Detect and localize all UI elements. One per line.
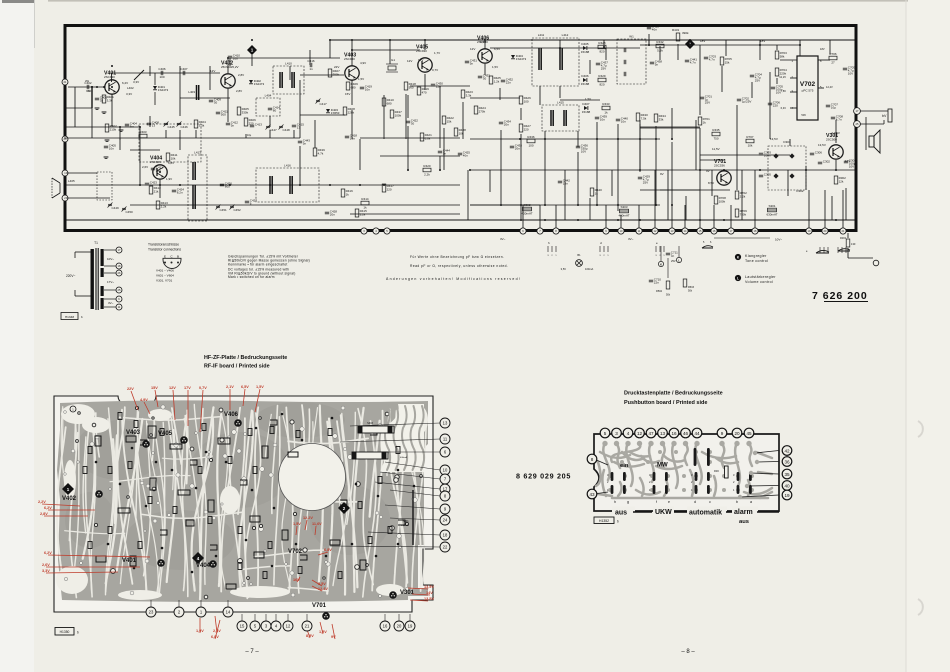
- svg-text:ein: ein: [620, 463, 629, 469]
- connector pin 14: [682, 228, 688, 234]
- capacitor C415: [292, 124, 296, 126]
- PCB index diamonds: [62, 483, 74, 495]
- coil winding: [279, 72, 281, 88]
- svg-text:4,7k: 4,7k: [318, 151, 324, 155]
- resistor R407: [328, 69, 332, 77]
- pushbutton top pin circles: [600, 428, 610, 438]
- svg-text:2SC536: 2SC536: [714, 164, 725, 168]
- connector pin 2: [62, 195, 68, 201]
- resistor R709: [735, 209, 739, 217]
- svg-text:1S2473: 1S2473: [254, 82, 265, 86]
- svg-text:Für Werte ohne Bezeichnung: Für Werte ohne Bezeichnung pF bzw Ω eins…: [410, 255, 504, 259]
- connector pin 3: [361, 228, 367, 234]
- transistor V404: [153, 165, 167, 179]
- svg-text:Kennmarke • für alarm ein: Kennmarke • für alarm eingeschaltet: [228, 262, 287, 266]
- diode D403: [326, 109, 330, 113]
- svg-text:3,3k: 3,3k: [199, 123, 205, 127]
- svg-text:390k: 390k: [682, 31, 689, 35]
- trimmer capacitor C451: [216, 205, 220, 207]
- svg-text:20n: 20n: [330, 213, 335, 217]
- resistor R426: [519, 96, 523, 104]
- svg-text:35: 35: [100, 99, 104, 103]
- pushbutton resistor R301: [725, 466, 729, 478]
- svg-text:15188: 15188: [582, 110, 591, 114]
- svg-text:R414: R414: [361, 197, 369, 201]
- svg-text:680: 680: [387, 101, 392, 105]
- pushbutton board outline: [594, 434, 779, 511]
- svg-text:10V: 10V: [581, 150, 586, 154]
- wire bottom bus: [66, 219, 855, 221]
- capacitor C424: [172, 189, 176, 191]
- svg-text:6,4V: 6,4V: [781, 106, 787, 110]
- svg-text:680: 680: [351, 85, 356, 89]
- diode D406: [583, 78, 587, 82]
- coil winding: [192, 162, 194, 180]
- svg-text:S301: S301: [403, 520, 409, 523]
- resistor R403: [139, 134, 147, 138]
- svg-text:2,8V: 2,8V: [236, 89, 242, 93]
- svg-text:Mark • switched on for al: Mark • switched on for alarm: [228, 275, 275, 279]
- svg-text:R429: R429: [598, 74, 606, 78]
- svg-text:L403: L403: [188, 90, 195, 94]
- capacitor C711: [666, 252, 670, 254]
- capacitor C431: [465, 60, 469, 62]
- horizontal wires: [300, 74, 344, 76]
- svg-text:R420: R420: [423, 164, 431, 168]
- svg-text:f: f: [656, 500, 657, 504]
- coil winding: [559, 48, 561, 70]
- connector pin 12: [652, 228, 658, 234]
- capacitor C412: [226, 122, 230, 124]
- capacitor C440: [616, 118, 620, 120]
- label H1348: [61, 313, 78, 320]
- svg-text:7,5k: 7,5k: [641, 116, 647, 120]
- capacitor C410: [228, 55, 232, 57]
- volume control legend: [735, 275, 741, 281]
- svg-text:12,2V: 12,2V: [303, 516, 313, 520]
- svg-text:17V: 17V: [184, 386, 191, 390]
- capacitor C407: [182, 71, 184, 75]
- svg-text:18V: 18V: [700, 39, 705, 43]
- svg-text:MW: MW: [657, 463, 668, 469]
- PCB board outline: [54, 396, 433, 612]
- svg-text:D406: D406: [581, 74, 589, 78]
- svg-text:2,6V: 2,6V: [42, 563, 50, 567]
- svg-text:R436: R436: [527, 135, 535, 139]
- PCB transistor pads: [142, 440, 150, 448]
- capacitor C439: [595, 116, 599, 118]
- label H1350: [55, 628, 74, 636]
- svg-text:220k: 220k: [348, 110, 355, 114]
- IC V702: [797, 56, 818, 120]
- svg-text:1S2473: 1S2473: [158, 88, 169, 92]
- svg-text:100: 100: [524, 99, 529, 103]
- capacitor C436: [576, 145, 580, 147]
- svg-text:210k: 210k: [110, 127, 117, 131]
- svg-text:3V~: 3V~: [500, 237, 506, 241]
- resistor R408: [343, 107, 347, 115]
- svg-text:15: 15: [240, 624, 245, 629]
- IF-can L404: [256, 98, 280, 116]
- svg-text:3,3V: 3,3V: [126, 92, 132, 96]
- svg-text:V601 – V604: V601 – V604: [156, 274, 174, 278]
- svg-text:C446: C446: [181, 125, 189, 129]
- power area horizontals: [640, 189, 730, 191]
- connector pin 8: [553, 228, 559, 234]
- svg-text:1,5V: 1,5V: [585, 97, 591, 101]
- PCB extra dark marks: [95, 420, 405, 589]
- svg-text:11,5V: 11,5V: [712, 147, 720, 151]
- svg-text:V402: V402: [62, 496, 77, 502]
- svg-text:16: 16: [383, 624, 388, 629]
- svg-text:Lautstärkeregler: Lautstärkeregler: [745, 275, 776, 279]
- svg-text:390k: 390k: [333, 72, 340, 76]
- svg-text:18V: 18V: [820, 47, 825, 51]
- capacitor C401: [95, 97, 99, 99]
- svg-text:2,8V: 2,8V: [40, 512, 48, 516]
- svg-text:30: 30: [214, 101, 218, 105]
- resistor R402: [105, 124, 109, 132]
- PCB voltage labels red: [131, 391, 138, 410]
- resistor R708: [714, 196, 718, 204]
- connector pin 19: [806, 228, 812, 234]
- svg-text:R403: R403: [139, 130, 147, 134]
- svg-text:15V: 15V: [151, 386, 158, 390]
- svg-text:8,5V: 8,5V: [306, 634, 314, 638]
- IF-can W1: [617, 39, 646, 84]
- svg-text:R431: R431: [672, 28, 680, 32]
- svg-text:Klangregler: Klangregler: [745, 254, 767, 258]
- svg-text:automatik: automatik: [689, 510, 722, 517]
- svg-text:2,2k: 2,2k: [740, 194, 746, 198]
- svg-text:Read pF or Ω, respectively,: Read pF or Ω, respectively, unless other…: [410, 264, 508, 268]
- coil winding: [289, 176, 291, 194]
- capacitor C419: [360, 86, 364, 88]
- svg-text:V301, V701: V301, V701: [156, 279, 172, 283]
- svg-text:alarm: alarm: [734, 509, 753, 516]
- wire to speaker: [858, 110, 888, 112]
- transistor V701: [717, 171, 731, 185]
- svg-text:3,3V: 3,3V: [42, 569, 50, 573]
- resistor R406: [244, 118, 248, 126]
- connector pin 4: [373, 228, 379, 234]
- resistor R436: [527, 139, 535, 143]
- resistor R412: [149, 186, 153, 194]
- svg-text:10V: 10V: [848, 72, 853, 76]
- diode D401: [153, 86, 157, 90]
- svg-text:6,2V: 6,2V: [44, 551, 52, 555]
- junction dots: [91, 39, 837, 221]
- svg-text:6,8V: 6,8V: [324, 548, 332, 552]
- coil winding: [538, 48, 540, 70]
- svg-text:10V~: 10V~: [775, 238, 782, 242]
- capacitor C411: [216, 111, 220, 113]
- resistor R423: [461, 90, 465, 98]
- svg-text:630mAT: 630mAT: [401, 524, 410, 527]
- svg-text:22: 22: [443, 545, 448, 550]
- connector pin 20: [822, 228, 828, 234]
- transistor V405: [418, 58, 432, 72]
- svg-text:9V: 9V: [331, 635, 336, 639]
- svg-text:12k: 12k: [839, 179, 844, 183]
- antenna coil L401: [91, 86, 93, 108]
- capacitor C432: [501, 79, 505, 81]
- connector pin 16: [711, 228, 717, 234]
- power area vertical wires: [467, 170, 469, 220]
- wire lower-left rail: [66, 126, 140, 128]
- svg-text:50V: 50V: [801, 113, 806, 117]
- svg-text:D405: D405: [581, 42, 589, 46]
- svg-text:35: 35: [784, 472, 790, 477]
- svg-text:b: b: [617, 520, 619, 524]
- svg-text:44: 44: [694, 431, 700, 436]
- IF-can L415: [542, 105, 579, 131]
- resistor R707: [746, 139, 754, 143]
- trimmer capacitor C448: [279, 125, 283, 127]
- svg-text:2SC930: 2SC930: [416, 49, 427, 53]
- svg-text:12: 12: [637, 431, 643, 436]
- svg-text:7 626 200: 7 626 200: [812, 290, 868, 302]
- connector pin 18: [752, 228, 758, 234]
- capacitor C706: [768, 102, 772, 104]
- svg-text:10V: 10V: [849, 165, 854, 169]
- resistor R428: [598, 45, 606, 49]
- svg-text:V404: V404: [196, 563, 211, 569]
- capacitor C434: [499, 121, 503, 123]
- svg-text:Drucktastenplatte / Bedruckung: Drucktastenplatte / Bedruckungsseite: [624, 391, 723, 397]
- svg-text:L413: L413: [194, 151, 201, 155]
- svg-text:220: 220: [524, 127, 529, 131]
- capacitor C429: [638, 176, 642, 178]
- lower mid horizontals: [470, 204, 660, 206]
- connector pin 21: [62, 79, 68, 85]
- svg-text:H1352: H1352: [599, 519, 609, 523]
- svg-text:8,2n: 8,2n: [177, 191, 183, 195]
- capacitor C302: [818, 161, 822, 163]
- capacitor C408: [147, 122, 151, 124]
- svg-text:6,2V: 6,2V: [44, 506, 52, 510]
- coil L402: [134, 70, 144, 80]
- coil winding: [291, 72, 293, 88]
- resistor R430: [636, 113, 640, 121]
- svg-text:4: 4: [627, 431, 630, 436]
- tone control legend: [735, 254, 741, 260]
- wire lower mid rail: [470, 169, 857, 171]
- svg-text:1,5V: 1,5V: [293, 522, 301, 526]
- svg-text:330k: 330k: [242, 110, 249, 114]
- svg-text:15188: 15188: [581, 82, 590, 86]
- capacitor C435: [510, 145, 514, 147]
- svg-text:25V: 25V: [755, 79, 760, 83]
- svg-text:21: 21: [305, 624, 310, 629]
- coil winding: [563, 110, 565, 126]
- switch arm symbols below border: [816, 250, 829, 253]
- svg-text:1S553: 1S553: [331, 111, 340, 115]
- svg-text:12V: 12V: [169, 386, 176, 390]
- svg-text:3: 3: [615, 431, 618, 436]
- svg-text:25V: 25V: [643, 181, 648, 185]
- IF-can L416: [256, 168, 319, 202]
- svg-text:3V~: 3V~: [108, 301, 114, 305]
- svg-text:L412: L412: [562, 33, 569, 37]
- svg-text:40: 40: [784, 483, 790, 488]
- capacitor C443: [298, 140, 302, 142]
- resistor R420: [423, 168, 431, 172]
- svg-text:22V: 22V: [127, 387, 134, 391]
- svg-text:R301: R301: [840, 236, 847, 240]
- svg-text:10k: 10k: [171, 156, 176, 160]
- svg-text:14: 14: [226, 610, 231, 615]
- resistor R439: [313, 148, 317, 156]
- svg-text:R30: R30: [714, 469, 719, 473]
- svg-text:100: 100: [528, 144, 533, 148]
- svg-text:45: 45: [746, 431, 752, 436]
- transistor V301: [829, 145, 843, 159]
- svg-text:µPC 575: µPC 575: [802, 89, 814, 93]
- svg-text:40n: 40n: [463, 154, 468, 158]
- coil winding: [269, 176, 271, 194]
- resistor R437: [390, 110, 394, 118]
- svg-text:– 7 –: – 7 –: [245, 649, 259, 655]
- connector pin 25: [116, 287, 122, 293]
- svg-text:10V~: 10V~: [107, 257, 114, 261]
- svg-text:46: 46: [683, 431, 689, 436]
- connector pin 13: [669, 228, 675, 234]
- svg-text:C451: C451: [220, 208, 228, 212]
- node marker 2: [685, 39, 695, 49]
- svg-text:2SC930: 2SC930: [344, 57, 355, 61]
- connector pin 26: [116, 270, 122, 276]
- resistor R440: [590, 188, 594, 196]
- capacitor C420: [647, 26, 651, 28]
- svg-text:RF-IF board / Printed side: RF-IF board / Printed side: [204, 364, 270, 370]
- svg-text:25V: 25V: [705, 101, 710, 105]
- svg-text:1,9V: 1,9V: [166, 177, 172, 181]
- pushbutton label clearings: [612, 507, 635, 517]
- svg-text:G1: G1: [391, 58, 395, 62]
- svg-text:0,7V: 0,7V: [432, 68, 438, 72]
- resistor R433: [602, 106, 610, 110]
- svg-text:e: e: [668, 500, 670, 504]
- dashed antenna box: [97, 172, 112, 200]
- capacitor C416: [309, 63, 311, 67]
- PCB black component marks: [83, 413, 400, 579]
- vertical wires: [91, 108, 93, 127]
- resistor R701: [698, 117, 702, 125]
- capacitor C413: [250, 124, 254, 126]
- resistor R704: [775, 68, 779, 76]
- resistor R425: [489, 76, 493, 84]
- svg-text:14V: 14V: [426, 591, 433, 595]
- PCB pin number circles right: [350, 423, 440, 426]
- svg-text:820: 820: [599, 83, 604, 87]
- resistor R418: [404, 82, 408, 90]
- svg-text:Tone control: Tone control: [745, 259, 768, 263]
- svg-text:R502: R502: [656, 290, 663, 293]
- svg-text:6,5V: 6,5V: [494, 47, 500, 51]
- svg-text:12V: 12V: [470, 47, 475, 51]
- svg-text:R435: R435: [712, 128, 720, 132]
- speaker: [869, 136, 874, 147]
- capacitor C305: [759, 174, 763, 176]
- svg-text:R706: R706: [829, 52, 837, 56]
- svg-text:15188: 15188: [581, 50, 590, 54]
- resistor R414: [361, 201, 369, 205]
- svg-text:220: 220: [773, 104, 778, 108]
- capacitor C418: [345, 135, 349, 137]
- ground: [104, 156, 109, 158]
- wire top right rail: [640, 44, 800, 46]
- svg-text:270k: 270k: [479, 109, 486, 113]
- connector pin 18: [116, 263, 122, 269]
- svg-text:a: a: [750, 500, 752, 504]
- capacitor C704: [750, 74, 754, 76]
- svg-text:d: d: [694, 500, 696, 504]
- connector pin 11: [636, 228, 642, 234]
- connector pin 5: [384, 228, 390, 234]
- svg-text:4,9V: 4,9V: [360, 61, 366, 65]
- svg-text:9V: 9V: [660, 172, 664, 176]
- svg-text:S301: S301: [768, 204, 775, 208]
- resistor R503: [683, 279, 687, 287]
- svg-text:47: 47: [648, 431, 654, 436]
- svg-text:S303: S303: [367, 422, 373, 425]
- PCB copper shading patches: [65, 402, 390, 570]
- svg-text:8: 8: [591, 457, 594, 462]
- diode D405: [583, 46, 587, 50]
- trimmer capacitor C450: [122, 207, 126, 209]
- svg-text:V401 – V406: V401 – V406: [156, 269, 174, 273]
- svg-text:6,2V: 6,2V: [122, 81, 128, 85]
- resistor R301: [846, 239, 850, 247]
- resistor R432: [656, 44, 664, 48]
- trimmer capacitor C447: [266, 125, 270, 127]
- resistor R427: [519, 124, 523, 132]
- svg-text:750k: 750k: [740, 212, 747, 216]
- resistor R302: [834, 176, 838, 184]
- svg-text:12,4V: 12,4V: [318, 587, 328, 591]
- connector pin 11: [116, 304, 122, 310]
- svg-text:1k: 1k: [346, 192, 350, 196]
- svg-text:H1350: H1350: [60, 630, 70, 634]
- svg-text:5n: 5n: [655, 63, 659, 67]
- resistor R429: [598, 78, 606, 82]
- svg-text:2SC930: 2SC930: [104, 75, 115, 79]
- svg-text:Volume control: Volume control: [745, 280, 773, 284]
- svg-text:13,5V: 13,5V: [818, 143, 826, 147]
- connector pin 17: [728, 228, 734, 234]
- resistor R410: [382, 98, 386, 106]
- connector pin 15: [697, 228, 703, 234]
- pushbutton contact pads: [611, 448, 752, 494]
- svg-text:L416: L416: [284, 164, 291, 168]
- resistor R405: [237, 107, 241, 115]
- svg-text:16: 16: [671, 431, 677, 436]
- svg-text:100k: 100k: [719, 199, 726, 203]
- svg-text:58k: 58k: [780, 54, 785, 58]
- capacitor C409: [209, 99, 213, 101]
- svg-text:2,8V: 2,8V: [238, 73, 244, 77]
- svg-text:8 629 029 205: 8 629 029 205: [516, 472, 571, 481]
- IF-can L413: [188, 155, 207, 221]
- fuse S301: [768, 208, 777, 212]
- svg-text:D302: D302: [796, 189, 804, 193]
- capacitor C708: [831, 116, 835, 118]
- connector pin 1: [62, 170, 68, 176]
- svg-text:13: 13: [660, 431, 666, 436]
- svg-text:9V: 9V: [706, 169, 710, 173]
- capacitor C433: [478, 75, 482, 77]
